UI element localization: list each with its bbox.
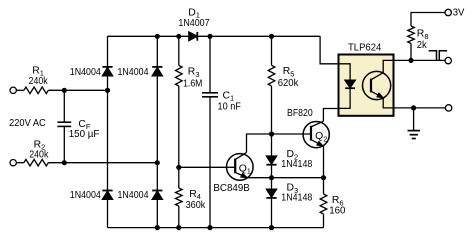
svg-text:1N4148: 1N4148	[281, 159, 312, 170]
node R8 bottom dot	[408, 58, 413, 63]
wire Q1 collector to Q2 base	[247, 134, 312, 152]
node bottom rail / column2 dot	[155, 225, 160, 230]
svg-text:160: 160	[329, 206, 345, 217]
node Q2 emitter / R6 dot	[321, 175, 326, 180]
svg-text:1N4004: 1N4004	[118, 67, 149, 78]
svg-text:150 µF: 150 µF	[69, 129, 100, 140]
resistor R2	[24, 159, 48, 166]
svg-text:1N4004: 1N4004	[70, 190, 101, 201]
wire bridge column 1	[107, 36, 109, 227]
wire C1 column	[209, 36, 211, 227]
svg-text:BC849B: BC849B	[213, 183, 249, 194]
wire R1 to bridge	[48, 89, 107, 91]
diode 1N4004 bottom-right	[152, 191, 162, 200]
phototransistor inside optocoupler	[363, 71, 391, 99]
optocoupler U1 TLP624 body	[339, 55, 394, 116]
resistor R8	[408, 13, 445, 61]
resistor R3	[176, 65, 183, 86]
resistor R4	[176, 188, 183, 206]
resistor R1	[24, 87, 48, 94]
capacitor C1	[202, 93, 218, 97]
wire terminal to R2	[16, 162, 24, 164]
wire opto emitter to output terminal	[395, 107, 446, 109]
wire Q2 collector to optocoupler	[323, 109, 338, 122]
terminal output top	[445, 57, 451, 63]
node R2 line / column2 dot	[155, 160, 160, 165]
wire bottom rail	[108, 227, 324, 229]
wire bridge column 2	[156, 36, 158, 227]
resistor R6	[320, 194, 327, 214]
svg-text:240k: 240k	[29, 150, 49, 161]
ground	[408, 108, 421, 139]
svg-text:2k: 2k	[417, 40, 428, 51]
terminal AC input top	[10, 87, 16, 93]
svg-text:620k: 620k	[278, 78, 299, 89]
svg-text:R8: R8	[417, 29, 429, 41]
node C1 bottom rail dot	[207, 225, 212, 230]
node D1 anode dot	[176, 34, 181, 39]
capacitor CF	[57, 90, 71, 162]
svg-text:BF820: BF820	[287, 108, 313, 119]
svg-text:1N4004: 1N4004	[118, 190, 149, 201]
wire Q1 emitter to D2/D3 junction and Q2 emitter	[247, 177, 324, 179]
svg-text:240k: 240k	[29, 76, 49, 87]
pulse waveform symbol	[429, 51, 447, 61]
LED inside optocoupler	[339, 64, 356, 109]
diode D2 1N4148	[266, 156, 276, 165]
wire R3/R4 column	[178, 36, 180, 227]
node D1 cathode dot	[207, 34, 212, 39]
svg-text:1N4148: 1N4148	[281, 193, 312, 204]
node D2/D3 junction dot	[269, 175, 274, 180]
node R3/R4/Q1-base dot	[176, 165, 181, 170]
svg-text:1.6M: 1.6M	[183, 78, 202, 89]
svg-text:1N4007: 1N4007	[178, 18, 209, 29]
wire top rail	[108, 35, 321, 37]
svg-text:360k: 360k	[186, 200, 206, 211]
diode D1 1N4007	[189, 32, 198, 41]
svg-text:10 nF: 10 nF	[218, 101, 241, 112]
terminal output bottom	[445, 105, 451, 111]
svg-text:TLP624: TLP624	[348, 42, 381, 53]
node CF bottom dot	[62, 160, 67, 165]
node R1/CF/bridge junction dot	[105, 88, 110, 93]
wire top rail to optocoupler anode	[320, 36, 338, 64]
wire R5/D2/D3 column	[271, 36, 273, 227]
diode 1N4004 bottom-left	[102, 191, 112, 200]
wire terminal to R1	[16, 89, 24, 91]
transistor Q1 BC849B	[227, 152, 254, 180]
diode D3 1N4148	[266, 189, 276, 198]
node CF top dot	[62, 88, 67, 93]
node top rail / column2 dot	[155, 34, 160, 39]
diode 1N4004 top-left	[102, 67, 112, 76]
node D3 bottom rail dot	[269, 225, 274, 230]
node R5 top rail dot	[269, 34, 274, 39]
wire phototransistor emitter out	[383, 98, 394, 108]
resistor R5	[268, 65, 275, 86]
svg-text:3V: 3V	[453, 8, 465, 19]
svg-text:R5: R5	[283, 66, 295, 78]
wire R6 column	[323, 178, 325, 228]
svg-text:Q1: Q1	[239, 163, 251, 175]
wire phototransistor collector out	[383, 60, 394, 72]
node R5/D2 top dot	[269, 131, 274, 136]
diode 1N4004 top-right	[152, 67, 162, 76]
wire opto collector to output terminal	[395, 59, 445, 61]
svg-text:R3: R3	[188, 67, 200, 79]
svg-text:Q2: Q2	[315, 131, 327, 143]
wire Q1 base	[179, 166, 235, 168]
svg-text:1N4004: 1N4004	[70, 67, 101, 78]
terminal 3V	[445, 9, 451, 15]
node R4 bottom rail dot	[176, 225, 181, 230]
svg-text:220V AC: 220V AC	[9, 118, 46, 129]
terminal AC input bottom	[10, 160, 16, 166]
transistor Q2 BF820	[303, 121, 329, 148]
wire R2 to bridge column 2	[48, 162, 157, 164]
node ground dot	[411, 105, 416, 110]
wire Q2 emitter down	[323, 146, 325, 178]
